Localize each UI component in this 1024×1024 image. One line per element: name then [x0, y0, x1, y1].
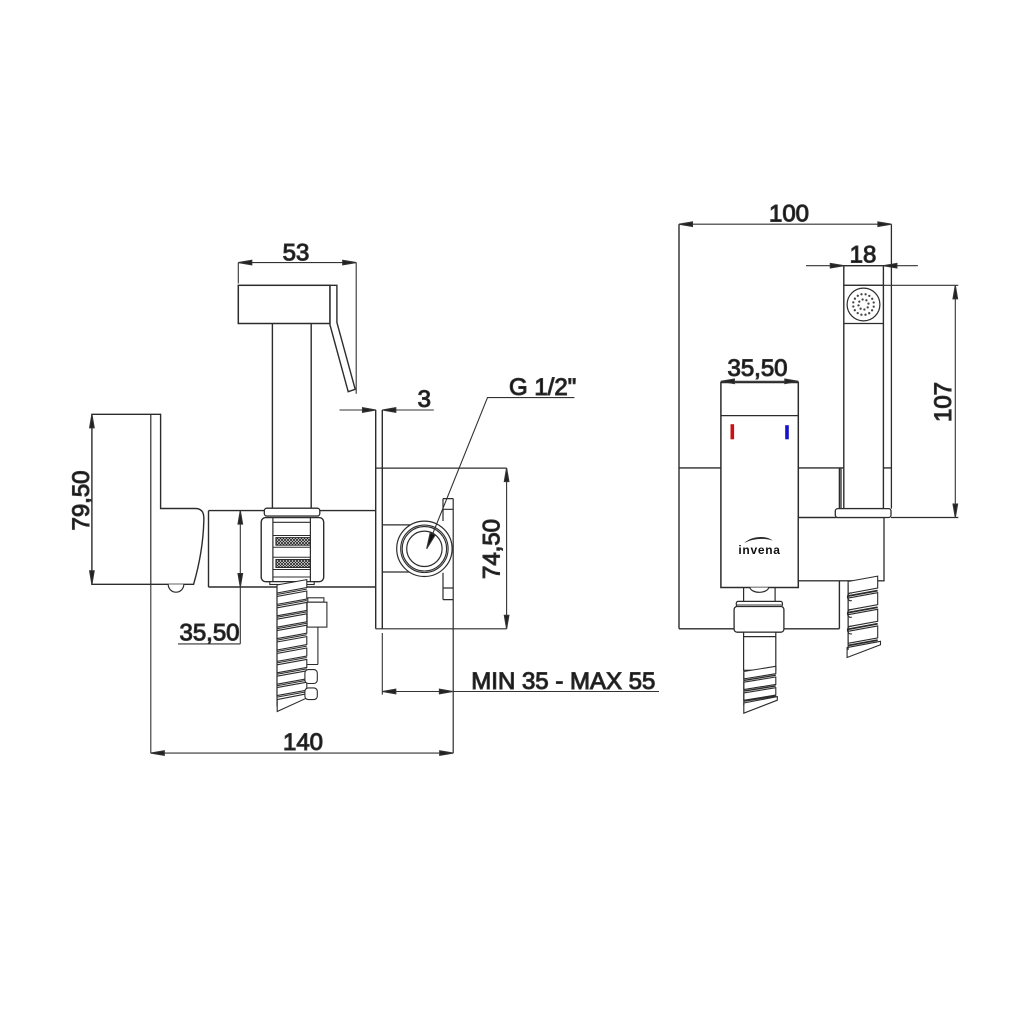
- concealed body outline lines (left view): [376, 468, 507, 629]
- left hose spiral: [277, 580, 309, 712]
- svg-text:107: 107: [930, 382, 957, 422]
- holder collar (left view): [264, 508, 320, 516]
- hose nipple below holder: [270, 582, 314, 585]
- dimension 18 (handle width): [806, 242, 918, 269]
- mixer body front (right view): [721, 383, 798, 588]
- dimension 35,50 left (holder height): [178, 511, 243, 647]
- svg-text:invena: invena: [738, 543, 780, 557]
- dimension 79,50 (mixer height): [68, 414, 95, 584]
- wall plate front (right view): [679, 224, 891, 629]
- dimension 53 (sprayer head length): [238, 239, 356, 394]
- G 1/2 valve circles: [397, 521, 452, 576]
- block top edge / flange seat line: [798, 517, 958, 519]
- sprayer head (left view): [238, 285, 330, 323]
- dimension 100 (assembly width): [679, 200, 891, 227]
- hose connector shaft: [744, 632, 776, 670]
- svg-text:18: 18: [850, 242, 877, 269]
- dimension MIN 35 - MAX 55 (embed depth): [382, 633, 659, 695]
- dimension 35,50 right (mixer width): [721, 355, 798, 384]
- invena logo: [738, 537, 780, 557]
- mixer cap parting line: [721, 415, 798, 417]
- cold index mark (blue): [785, 425, 789, 439]
- hot index mark (red): [731, 424, 735, 439]
- svg-text:79,50: 79,50: [68, 470, 95, 530]
- ball joint arc under mixer: [750, 588, 769, 593]
- inlet stub lines behind valve: [382, 525, 415, 572]
- mounting flange profile (left view): [443, 499, 453, 600]
- flange right edge + extension line down to 140 dim: [452, 499, 454, 753]
- spray nozzle dots: [853, 294, 873, 314]
- svg-text:G 1/2": G 1/2": [509, 374, 576, 401]
- svg-text:100: 100: [769, 200, 809, 227]
- wall plate side (left view): [376, 410, 383, 629]
- dimension 74,50 (plate height): [479, 468, 509, 629]
- G 1/2 leader and label: [424, 374, 576, 550]
- holder hose spiral (right view): [847, 576, 880, 657]
- knurl band 2: [276, 560, 311, 568]
- hose collar nut: [734, 607, 784, 633]
- hose collar cap: [736, 601, 782, 606]
- dimension 140 (total depth): [151, 584, 453, 756]
- hand shower handle (right view): [844, 266, 884, 509]
- svg-text:35,50: 35,50: [727, 355, 787, 382]
- dimension 107 (handle length): [844, 285, 959, 517]
- shower holder knurled body (left view): [261, 518, 324, 582]
- sprayer tube (left view): [272, 324, 311, 508]
- set screw bulge under mixer: [168, 584, 184, 592]
- svg-text:140: 140: [283, 729, 323, 756]
- outlet neck: [744, 588, 776, 602]
- left hose outlet fitting: [305, 598, 327, 700]
- knurl band 1: [276, 538, 311, 546]
- svg-text:35,50: 35,50: [179, 620, 239, 647]
- svg-text:MIN 35 - MAX 55: MIN 35 - MAX 55: [471, 668, 655, 695]
- svg-text:3: 3: [418, 386, 431, 413]
- dimension 3 (plate offset): [340, 386, 434, 413]
- handle base flange: [835, 509, 891, 518]
- holder block (right view): [798, 518, 884, 581]
- holder block (left view): [209, 511, 376, 587]
- sprayer lever (left view): [330, 285, 355, 391]
- mixer hose spiral (right view): [744, 666, 778, 713]
- mixer body side profile (left view): [92, 414, 204, 584]
- spray face circle: [847, 288, 880, 321]
- svg-text:74,50: 74,50: [479, 519, 506, 579]
- svg-text:53: 53: [283, 239, 310, 266]
- handle bracket (right view): [841, 224, 891, 508]
